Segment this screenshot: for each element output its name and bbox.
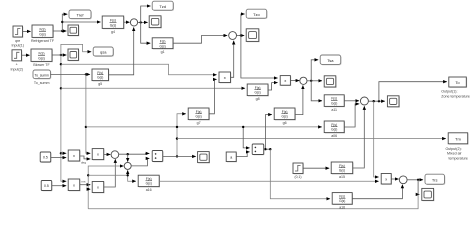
wire g5 up to sum1 — [109, 27, 134, 74]
svg-text:Blower TF: Blower TF — [33, 63, 50, 67]
svg-text:G(s): G(s) — [159, 44, 165, 48]
wire g4 to sum1 — [124, 21, 130, 23]
svg-text:(0,1): (0,1) — [295, 175, 302, 179]
wire up to To outport — [379, 82, 447, 102]
junction dot y175.3 — [87, 174, 89, 176]
junction dot y64 — [60, 63, 62, 65]
wire Refrigerant TF to scope1 — [53, 30, 66, 32]
wire a06 to sum4 lower input — [344, 104, 359, 127]
svg-text:a06: a06 — [331, 134, 337, 138]
transfer fn a11 — [324, 95, 345, 112]
svg-text:F(s): F(s) — [38, 51, 44, 55]
scope4 — [68, 49, 79, 61]
wire down into sumB top — [127, 154, 129, 162]
wire Input(2) to Blower TF — [22, 54, 30, 56]
scope8 — [422, 188, 435, 201]
wire mux riser to g7 input — [177, 114, 186, 157]
svg-text:G(s): G(s) — [339, 169, 345, 173]
wire down to scope8 — [418, 180, 419, 195]
junction dot — [61, 30, 63, 32]
svg-text:G(s): G(s) — [281, 115, 287, 119]
wire X1 to X2 in2, label deg — [80, 156, 91, 159]
svg-text:G(s): G(s) — [146, 182, 152, 186]
svg-text:F(s): F(s) — [110, 18, 116, 22]
product X2 — [92, 149, 104, 161]
transfer fn Refrigerant TF — [31, 25, 55, 43]
svg-text:G(s): G(s) — [254, 91, 260, 95]
svg-text:F(s): F(s) — [146, 177, 152, 181]
outport Tm — [446, 133, 469, 161]
wire a11 to sum4 — [344, 100, 359, 102]
wire down to product X5 in1 — [374, 101, 379, 177]
product X5 — [381, 174, 392, 185]
svg-text:x: x — [97, 186, 99, 190]
junction dot on y139.7 — [176, 137, 178, 139]
wire X3 to X4 in1, label ms — [80, 184, 91, 186]
wire a15 up to sum4 bottom — [353, 106, 365, 168]
svg-text:g6: g6 — [283, 121, 287, 125]
svg-text:Tref: Tref — [77, 13, 85, 18]
svg-text:Tsa: Tsa — [327, 58, 334, 63]
junction dot on y128.2 — [176, 126, 178, 128]
wire y175.3 to sumB bottom and a16 — [88, 170, 136, 181]
junction dot y128 — [85, 126, 87, 128]
wire up to Tsa tag — [311, 60, 318, 81]
svg-text:x: x — [73, 154, 75, 158]
svg-text:g1: g1 — [161, 50, 165, 54]
junction dot — [378, 100, 380, 102]
transfer fn g1 — [152, 38, 174, 54]
product X3 — [68, 179, 80, 191]
wire XP2 to sum3 — [290, 80, 299, 82]
wire y128 to a06 — [86, 126, 322, 128]
junction dot blower out — [60, 54, 62, 56]
wire mux2 out down to a16b — [270, 149, 330, 199]
transfer fn g8 — [247, 84, 269, 101]
wire g6 out up to sum3 bottom — [295, 85, 303, 114]
junction dot node y22 — [61, 21, 63, 23]
wire down to a11 — [311, 81, 322, 101]
wire Tm line — [177, 138, 446, 140]
scope1 — [68, 25, 79, 36]
wire long vertical To_summ x86 — [86, 74, 90, 153]
transfer fn a16b — [332, 193, 353, 210]
goto tag Tref — [69, 10, 92, 19]
wire mux1 out to scope7 — [163, 155, 196, 157]
wire g7 out up to product XP1 in2 — [209, 79, 217, 113]
transfer fn a16 — [138, 175, 160, 192]
wire K2 to X3 in2 — [52, 185, 66, 187]
svg-text:G(s): G(s) — [110, 23, 117, 27]
sum junction sumB — [124, 162, 131, 169]
sum junction sum2 — [229, 32, 237, 40]
wire g8 to product XP2 in2 — [268, 83, 278, 90]
svg-text:deg: deg — [81, 161, 86, 165]
svg-text:Trs: Trs — [432, 178, 438, 183]
transfer fn a15 — [331, 162, 353, 179]
svg-text:x: x — [385, 178, 387, 182]
sum junction sum3 — [300, 77, 307, 84]
wire sum5 out to Trs tag — [407, 179, 423, 181]
svg-text:Mixed air: Mixed air — [447, 152, 462, 156]
goto tag To_summ — [33, 70, 51, 85]
junction dot — [310, 80, 312, 82]
product X1 — [68, 150, 80, 162]
svg-text:Tm: Tm — [455, 136, 461, 141]
svg-text:G(s): G(s) — [38, 56, 45, 60]
wire y128 branch down to MUX2 in1 — [243, 127, 249, 148]
outport To — [441, 77, 470, 98]
wire y89 to g8 — [61, 87, 245, 89]
wire down to g1 — [141, 22, 151, 43]
svg-text:temperature: temperature — [449, 156, 468, 160]
scope2 — [149, 16, 162, 29]
svg-text:To_summ: To_summ — [34, 81, 50, 85]
svg-text:Refrigerant TF: Refrigerant TF — [31, 39, 55, 43]
wire Input(1) to Refrigerant TF — [23, 30, 31, 32]
svg-text:To_summ: To_summ — [35, 74, 50, 78]
wire X5 to sum5 — [391, 178, 398, 180]
svg-text:Output(2):: Output(2): — [446, 147, 462, 151]
scope7 — [198, 152, 210, 164]
junction dot — [140, 21, 142, 23]
junction dot y153 — [60, 152, 62, 154]
svg-text:F(s): F(s) — [331, 97, 337, 101]
svg-text:ms: ms — [82, 180, 86, 184]
wire mux2 out up to g6 input — [264, 115, 272, 150]
scope5 — [324, 76, 336, 88]
svg-text:Tzo: Tzo — [253, 12, 260, 17]
junction dot branch to sumB — [127, 153, 129, 155]
wire X4 out up to sumA bottom — [104, 159, 116, 187]
sum junction sum5 — [399, 176, 407, 184]
wire branch to product X1 in1 — [61, 152, 66, 154]
svg-text:F(s): F(s) — [97, 71, 103, 75]
transfer fn g7 — [188, 108, 210, 125]
svg-text:Tzd: Tzd — [159, 4, 166, 9]
wire long vertical qsa feed x61 — [61, 55, 66, 181]
wire To_summ to g5 — [51, 73, 91, 75]
svg-text:g4: g4 — [111, 30, 115, 34]
wire branch to X4 in2 — [88, 188, 90, 190]
wire around scope to qsa tag — [61, 44, 91, 55]
wire sumA out to mux1 in1 — [119, 152, 150, 155]
svg-text:a: a — [230, 156, 232, 160]
svg-text:F(s): F(s) — [339, 164, 345, 168]
svg-text:Input(1): Input(1) — [12, 44, 24, 48]
wire y64 jog to product XP1 in1 — [61, 64, 217, 75]
wire sum2 out to scope3 — [237, 35, 245, 37]
svg-text:x: x — [73, 183, 75, 187]
wire feedback bottom long line — [88, 194, 418, 208]
svg-text:G(s): G(s) — [331, 128, 337, 132]
wire a16b to sum5 bottom — [352, 185, 402, 199]
junction dot y189.2 — [87, 188, 89, 190]
wire A out to MUX2 in2 — [236, 152, 249, 157]
svg-text:g5: g5 — [98, 82, 102, 86]
wire X2 to sumA — [104, 153, 111, 155]
svg-text:qsa: qsa — [100, 50, 107, 55]
svg-text:Zone temperature: Zone temperature — [441, 94, 470, 98]
product XP2 — [280, 76, 291, 86]
sum junction sum1 — [130, 19, 137, 26]
svg-text:+: + — [16, 63, 18, 67]
mux block MUX2 — [252, 144, 264, 155]
goto tag qsa — [93, 47, 114, 57]
svg-text:a11: a11 — [331, 108, 337, 112]
svg-text:F(s): F(s) — [255, 86, 261, 90]
svg-text:x: x — [97, 153, 99, 157]
gain block A — [226, 152, 237, 162]
svg-text:G(s): G(s) — [39, 32, 46, 36]
constant 0.5 block K2 — [41, 181, 52, 192]
transfer fn g4 — [102, 16, 124, 34]
svg-text:F(s): F(s) — [282, 110, 288, 114]
wire to g4 — [62, 21, 100, 23]
wire step to a15 — [303, 167, 329, 169]
svg-text:Output(1):: Output(1): — [441, 90, 457, 94]
svg-text:F(s): F(s) — [196, 110, 202, 114]
mux block MUX1 — [152, 151, 163, 163]
wire g1 to sum2 — [173, 36, 227, 44]
goto tag Tsa — [320, 55, 341, 65]
junction dot x86 — [85, 73, 87, 75]
wire sum1 out to scope2 — [138, 21, 148, 23]
transfer fn Blower TF — [31, 49, 53, 67]
wire sum4 out to scope6 — [368, 100, 384, 102]
svg-text:G(s): G(s) — [331, 101, 337, 105]
svg-text:a15: a15 — [339, 175, 345, 179]
svg-text:F(s): F(s) — [160, 40, 166, 44]
transfer fn a06 — [324, 121, 345, 138]
scope6 — [387, 96, 399, 108]
svg-text:a16: a16 — [146, 188, 152, 192]
wire up to Tzo tag — [241, 14, 245, 36]
wire K1 to X1 in2 — [51, 157, 66, 159]
transfer fn g5 — [92, 69, 109, 86]
wire up to Tref tag — [62, 14, 67, 31]
svg-text:F(s): F(s) — [339, 194, 345, 198]
wire XP1 out up to sum2 — [231, 41, 234, 78]
goto tag Trs — [425, 174, 445, 185]
goto tag Tzd — [152, 1, 174, 11]
junction dot — [264, 148, 266, 150]
svg-text:qre: qre — [15, 39, 20, 43]
product XP1 — [219, 72, 231, 83]
step source (0,1) — [293, 163, 304, 179]
junction dot — [242, 126, 244, 128]
svg-text:g7: g7 — [197, 121, 201, 125]
svg-text:x: x — [224, 75, 226, 80]
wire down to product XP2 in1 — [241, 36, 278, 79]
svg-text:0.5: 0.5 — [44, 184, 49, 188]
junction dot — [269, 148, 271, 150]
wire sumB out to mux1 in2 — [131, 158, 149, 166]
svg-text:G(s): G(s) — [339, 199, 345, 203]
transfer fn g6 — [274, 108, 296, 125]
step source Input(2) — [11, 50, 23, 72]
junction dot y89 — [60, 87, 62, 89]
wire a16 long line to X5 in2 — [159, 180, 378, 182]
svg-text:0.5: 0.5 — [43, 156, 48, 160]
svg-text:F(s): F(s) — [331, 123, 337, 127]
junction dot mux out — [176, 155, 178, 157]
product X4 — [92, 182, 104, 194]
junction dot — [127, 174, 129, 176]
feedback loop riser x88 — [88, 166, 123, 209]
junction dot — [240, 34, 242, 36]
sum junction sumA — [111, 151, 119, 159]
wire Blower TF to scope4 — [52, 54, 66, 56]
svg-text:Input(2): Input(2) — [11, 68, 23, 72]
svg-text:G(s): G(s) — [97, 76, 103, 80]
goto tag Tzo — [246, 9, 267, 19]
svg-text:G(s): G(s) — [195, 115, 201, 119]
junction dot — [417, 179, 419, 181]
constant 0.5 block K1 — [40, 152, 51, 163]
wire up to Tzd tag — [141, 6, 151, 22]
svg-text:x: x — [284, 79, 286, 83]
scope3 — [246, 29, 259, 42]
wire sum3 out to scope5 — [307, 80, 322, 82]
svg-text:g8: g8 — [256, 97, 260, 101]
junction dot — [373, 100, 375, 102]
svg-text:F(s): F(s) — [39, 27, 45, 31]
sum junction sum4 — [360, 97, 368, 105]
step source Input(1) — [12, 26, 24, 48]
